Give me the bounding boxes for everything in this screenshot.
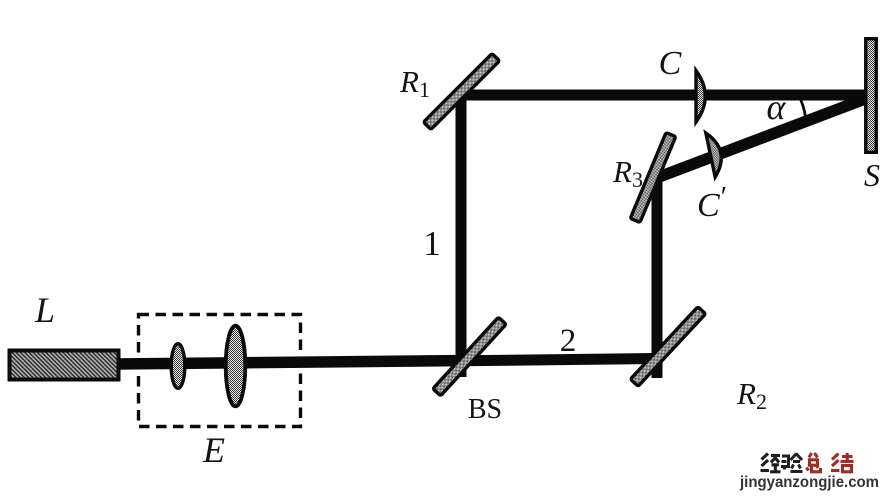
svg-text:R2: R2	[736, 376, 767, 414]
screen S	[866, 39, 877, 153]
watermark char yan (black)	[781, 454, 803, 472]
watermark char zong (red)	[807, 453, 821, 472]
svg-text:jingyanzongjie.com: jingyanzongjie.com	[739, 474, 879, 491]
svg-text:C′: C′	[697, 181, 727, 224]
wire: beam 1 vertical BS to R1	[456, 90, 467, 377]
laser L	[10, 351, 119, 380]
mirror R3	[630, 133, 675, 223]
svg-text:R1: R1	[399, 64, 430, 102]
mirror R1	[423, 53, 499, 129]
angle arc alpha	[799, 95, 806, 118]
svg-text:L: L	[34, 290, 55, 330]
svg-text:E: E	[202, 430, 225, 470]
svg-text:C: C	[659, 45, 682, 82]
mirror R2	[630, 307, 705, 387]
wire: beam vertical R2 to R3	[652, 172, 663, 378]
svg-text:S: S	[864, 157, 880, 193]
wire: beam top R1 to S	[458, 90, 866, 101]
lens C'	[706, 131, 726, 177]
watermark char jing (black)	[761, 454, 781, 472]
beam expander box E (dashed)	[139, 315, 301, 427]
wire: beam 2 BS to R2	[460, 353, 662, 366]
watermark char jie (red)	[831, 453, 854, 472]
svg-text:α: α	[767, 87, 787, 127]
svg-text:R3: R3	[612, 154, 643, 192]
lens small (in expander)	[171, 344, 185, 389]
svg-text:1: 1	[423, 224, 441, 263]
wire: diagonal beam R3 to S	[649, 92, 871, 185]
lens C	[696, 71, 705, 123]
lens large (in expander)	[226, 326, 246, 407]
beam splitter BS	[433, 317, 506, 396]
wire: beam from laser to BS	[116, 355, 468, 370]
svg-text:BS: BS	[468, 394, 502, 425]
svg-text:2: 2	[560, 323, 577, 359]
